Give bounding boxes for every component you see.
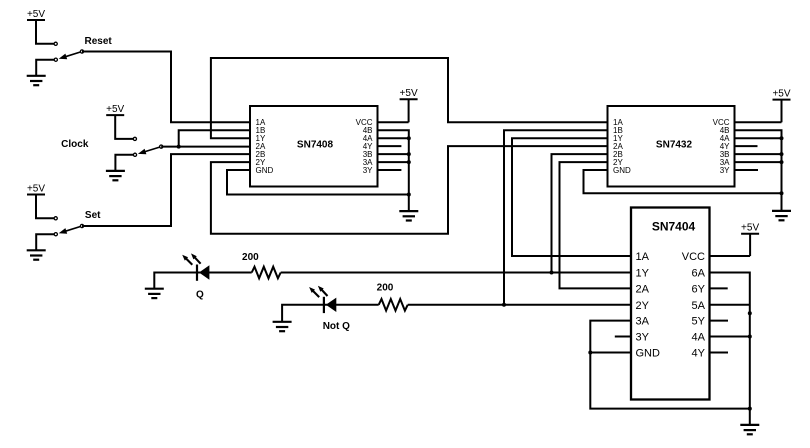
svg-text:4A: 4A <box>692 332 706 344</box>
svg-text:+5V: +5V <box>772 88 790 99</box>
svg-text:3A: 3A <box>636 316 650 328</box>
svg-text:SN7432: SN7432 <box>656 140 693 151</box>
svg-text:+5V: +5V <box>741 223 759 234</box>
svg-text:Reset: Reset <box>84 36 112 47</box>
svg-text:Not Q: Not Q <box>323 321 350 332</box>
svg-text:5A: 5A <box>692 300 706 312</box>
svg-text:+5V: +5V <box>27 183 45 194</box>
svg-text:3Y: 3Y <box>636 332 650 344</box>
svg-text:6A: 6A <box>692 268 706 280</box>
svg-text:2A: 2A <box>636 283 650 295</box>
svg-text:GND: GND <box>613 166 631 175</box>
svg-text:+5V: +5V <box>27 9 45 20</box>
svg-text:3Y: 3Y <box>720 166 730 175</box>
svg-text:+5V: +5V <box>106 104 124 115</box>
svg-text:Clock: Clock <box>61 139 89 150</box>
svg-text:4Y: 4Y <box>692 348 706 360</box>
svg-text:200: 200 <box>242 252 259 263</box>
svg-text:GND: GND <box>636 348 661 360</box>
svg-text:+5V: +5V <box>400 88 418 99</box>
svg-text:2Y: 2Y <box>636 300 650 312</box>
svg-text:1Y: 1Y <box>636 268 650 280</box>
svg-text:5Y: 5Y <box>692 316 706 328</box>
svg-text:1A: 1A <box>636 251 650 263</box>
svg-text:SN7404: SN7404 <box>652 219 696 233</box>
svg-text:GND: GND <box>256 166 274 175</box>
svg-text:Q: Q <box>196 290 204 301</box>
svg-text:6Y: 6Y <box>692 283 706 295</box>
svg-text:Set: Set <box>85 210 101 221</box>
svg-text:3Y: 3Y <box>363 166 373 175</box>
svg-text:200: 200 <box>377 282 394 293</box>
svg-text:SN7408: SN7408 <box>297 139 334 150</box>
svg-text:VCC: VCC <box>682 251 705 263</box>
